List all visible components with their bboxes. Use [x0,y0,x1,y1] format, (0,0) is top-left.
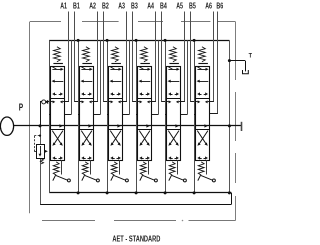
valve V4 pos2 arrow [139,80,151,83]
port A4 line [151,12,156,102]
valve V3 lever pivot bar [119,160,121,175]
valve V4 lever pivot bar [148,160,150,175]
tank symbol [243,70,249,74]
svg-text:A2: A2 [89,0,96,10]
svg-text:B1: B1 [73,0,80,10]
valve V2 crossed position [81,131,92,146]
relief valve RV [37,145,45,159]
svg-text:A3: A3 [118,0,125,10]
valve V2 return spring top [82,47,92,64]
svg-text:A4: A4 [147,0,154,10]
junction tankbus-returnbus [228,191,231,194]
enclosure chain left [29,22,31,213]
valve V4 crossed position [139,131,150,146]
valve V4 return spring top [140,47,150,64]
feed line V2 [93,40,100,114]
valve V6 crossed position [197,131,208,146]
valve V3 return spring top [111,47,121,64]
valve V1 crossed position [52,131,63,146]
valve V1 lever pivot bar [61,160,63,175]
label P [19,103,24,114]
relief valve spring [40,159,43,164]
port labels A1-B6 [60,0,223,10]
valve V1 pos1 arrow [52,67,64,71]
svg-text:P: P [19,103,24,114]
port A5 line [180,12,185,102]
valve V5 lever pivot bar [177,160,179,175]
port B5 line [190,12,196,102]
valve V6 return spring top [198,47,208,64]
valve V3 pos3 port arrows [110,92,121,95]
valve V6 pos1 arrow [197,67,209,71]
valve V2 pos2 arrow [81,80,93,83]
enclosure chain top [30,21,236,23]
feed line V3 [122,40,129,114]
return bus (bottom gallery) [49,192,231,194]
valve V6 pos3 port arrows [197,92,208,95]
svg-text:T: T [249,53,252,60]
valve V5 return spring top [169,47,179,64]
valve V6 pos4 port arrows [196,100,209,103]
caption AET - STANDARD [112,234,160,244]
port A6 line [209,12,214,102]
port A2 line [93,12,98,102]
drain line V2 [77,39,80,195]
valve V6 bottom port arrows [197,156,208,159]
port B2 line [103,12,109,102]
valve V3 bottom port arrows [110,156,121,159]
pump symbol P port [0,117,13,135]
valve V5 bottom port arrows [168,156,179,159]
enclosure chain right [235,22,237,221]
valve V1 body [51,67,65,161]
valve V3 lever and spring [111,162,129,182]
port B4 line [161,12,167,102]
valve V4 bottom port arrows [139,156,150,159]
carry-over plug [241,122,243,131]
valve V1 pos2 arrow [52,80,64,83]
valve V2 pos3 port arrows [81,92,92,95]
P flow arrow V5 [175,124,179,127]
port A3 line [122,12,127,102]
drain line V6 [193,39,196,195]
svg-text:B5: B5 [189,0,196,10]
drain line V3 [106,39,109,195]
valve V2 lever and spring [82,162,100,182]
valve V2 pos1 arrow [81,67,93,71]
relief pilot line [34,135,41,152]
svg-text:A5: A5 [176,0,183,10]
valve V4 lever and spring [140,162,158,182]
P bus line [14,125,242,127]
junction P-tankbus [228,124,231,127]
svg-text:B4: B4 [160,0,167,10]
P flow arrow V4 [146,124,150,127]
port B3 line [132,12,138,102]
valve V1 return spring top [53,47,63,64]
valve V6 lever pivot bar [206,160,208,175]
feed line V4 [151,40,158,114]
valve V5 pos3 port arrows [168,92,179,95]
valve V5 pos2 arrow [168,80,180,83]
relief return wrap line [40,126,232,205]
valve V3 pos1 arrow [110,67,122,71]
drain line V4 [135,39,138,195]
P flow arrow V6 [204,124,208,127]
valve V6 pos2 arrow [197,80,209,83]
valve V1 pos4 port arrows [51,100,64,103]
P flow arrow V2 [88,124,92,127]
valve V2 pos4 port arrows [80,100,93,103]
P flow arrow V3 [117,124,121,127]
valve V5 lever and spring [169,162,187,182]
valve V6 lever and spring [198,162,216,182]
valve V4 pos1 arrow [139,67,151,71]
valve V5 crossed position [168,131,179,146]
valve V2 bottom port arrows [81,156,92,159]
port B6 line [217,12,219,114]
valve V2 lever pivot bar [90,160,92,175]
port B1 line [74,12,80,102]
junction P-relief [39,124,42,127]
valve V4 pos4 port arrows [138,100,151,103]
feed line V6 via B6 [209,113,218,115]
P flow arrow V1 [59,124,63,127]
port A1 line [64,12,69,102]
valve V1 pos3 port arrows [52,92,63,95]
svg-text:A6: A6 [205,0,212,10]
valve V3 body [109,67,123,161]
T take-off [228,59,246,71]
valve V4 body [138,67,152,161]
drain line V5 [164,39,167,195]
label T [249,53,253,60]
svg-text:AET - STANDARD: AET - STANDARD [112,234,160,244]
feed bus (top gallery) [49,40,229,42]
valve V1 lever and spring [53,162,71,182]
valve V3 pos4 port arrows [109,100,122,103]
drain line V1 [49,40,51,193]
feed line V1 [64,40,71,114]
valve V2 body [80,67,94,161]
relief valve exit arrow [45,150,48,153]
svg-text:A1: A1 [60,0,67,10]
valve V1 bottom port arrows [52,156,63,159]
enclosure chain bottom [42,220,236,222]
tank bus vertical [229,40,231,193]
svg-text:B2: B2 [102,0,109,10]
svg-text:B6: B6 [216,0,223,10]
valve V5 pos4 port arrows [167,100,180,103]
valve V5 pos1 arrow [168,67,180,71]
valve V3 pos2 arrow [110,80,122,83]
valve V4 pos3 port arrows [139,92,150,95]
feed line V5 [180,40,187,114]
valve V5 body [167,67,181,161]
check valve CV1 [40,100,51,126]
valve V6 body [196,67,210,161]
svg-text:B3: B3 [131,0,138,10]
valve V3 crossed position [110,131,121,146]
